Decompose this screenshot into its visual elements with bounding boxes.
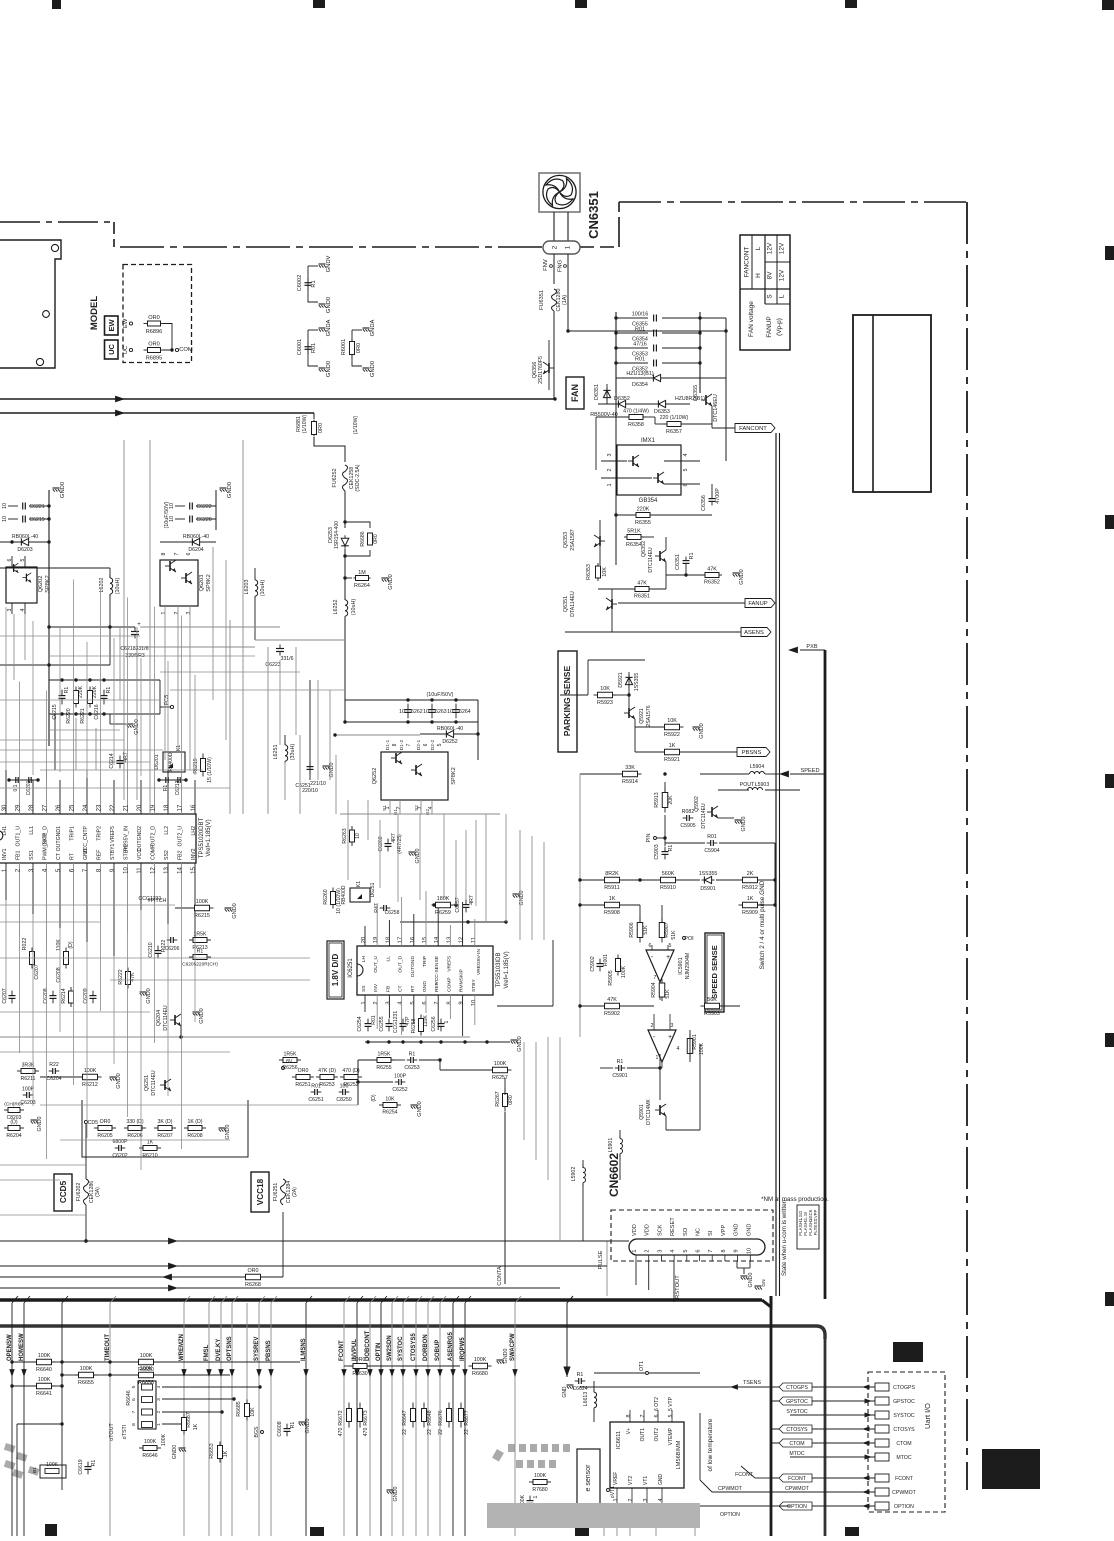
svg-text:24: 24: [83, 804, 89, 811]
svg-text:R6630: R6630: [352, 1371, 367, 1377]
capacitor C6204 R22: [49, 1070, 53, 1072]
svg-text:RT: RT: [410, 986, 416, 992]
svg-text:SYSREV: SYSREV: [254, 1337, 260, 1361]
svg-text:RT: RT: [70, 852, 76, 860]
svg-text:R6896: R6896: [146, 329, 162, 335]
svg-text:FANUP: FANUP: [766, 316, 773, 337]
svg-text:R6207: R6207: [157, 1133, 172, 1139]
uart signal CTOSYS: [771, 1428, 875, 1430]
wire signal SOBUP: [439, 1303, 441, 1536]
diode D6352: [598, 403, 648, 405]
svg-text:Q6352: Q6352: [641, 541, 647, 557]
wire signal DOBCONT: [369, 1303, 371, 1536]
svg-text:TPS5103IDB: TPS5103IDB: [496, 952, 502, 987]
wire crossing 62: [61, 1303, 63, 1490]
mounting hole: [36, 358, 43, 365]
svg-text:12: 12: [151, 867, 157, 874]
resistor R6264: [345, 577, 352, 579]
svg-text:D6203: D6203: [17, 547, 32, 553]
wire net column: [775, 433, 777, 1296]
svg-text:LH: LH: [361, 956, 367, 963]
svg-text:1K: 1K: [609, 896, 616, 902]
capacitor C6263: [431, 704, 433, 710]
svg-text:(1/10W): (1/10W): [302, 415, 308, 434]
resistor R5923 10K: [594, 694, 598, 696]
svg-text:SI: SI: [708, 1230, 714, 1236]
svg-text:R001: R001: [603, 954, 609, 966]
svg-text:1M: 1M: [358, 570, 366, 576]
svg-text:EW: EW: [123, 318, 129, 328]
svg-text:100K: 100K: [46, 1462, 58, 1468]
svg-text:PIN: PIN: [646, 833, 652, 842]
svg-text:R6255: R6255: [376, 1065, 391, 1071]
svg-text:CTOSYS5: CTOSYS5: [411, 1332, 417, 1361]
resistor R6001: [352, 329, 362, 331]
wire crossing 247: [246, 1303, 248, 1490]
svg-text:33K: 33K: [625, 765, 635, 771]
svg-text:C6264: C6264: [455, 709, 470, 715]
resistor R6896: [144, 323, 148, 325]
svg-text:L5902: L5902: [571, 1167, 577, 1182]
svg-text:S: S: [767, 294, 774, 298]
wire signal DVE.KY: [220, 1303, 222, 1536]
capacitor C6002: [308, 265, 318, 267]
arrow signal: [256, 1369, 261, 1377]
svg-text:4: 4: [670, 1249, 676, 1252]
svg-text:INV2: INV2: [191, 848, 197, 860]
node UC pin: [129, 348, 132, 351]
svg-text:4700P: 4700P: [715, 488, 721, 504]
svg-text:R6251: R6251: [295, 1082, 310, 1088]
wire bottom stub: [694, 1503, 696, 1536]
uart signal CPWMOT: [790, 1491, 875, 1493]
svg-text:OT1: OT1: [639, 1361, 645, 1371]
mosfet pair Q6202: [6, 567, 37, 603]
svg-text:ASENRG5: ASENRG5: [448, 1331, 454, 1361]
svg-text:C6202: C6202: [112, 1153, 127, 1159]
svg-text:R6646: R6646: [142, 1453, 157, 1459]
svg-text:R6212: R6212: [82, 1082, 98, 1088]
svg-text:C6263: C6263: [431, 709, 446, 715]
svg-text:47K: 47K: [707, 567, 717, 573]
svg-text:R6648: R6648: [427, 1410, 433, 1425]
resistor R5904 51K: [661, 979, 663, 983]
svg-text:(10uH): (10uH): [351, 599, 357, 616]
ground power top: [48, 490, 50, 746]
svg-text:(D): (D): [371, 1094, 377, 1101]
svg-text:GND0: GND0: [388, 574, 394, 590]
svg-text:R1: R1: [409, 1052, 416, 1058]
connector CN6602 dashed box: [611, 1210, 773, 1261]
svg-text:3: 3: [186, 611, 192, 614]
svg-text:C6256: C6256: [431, 1016, 437, 1031]
svg-text:10K: 10K: [385, 1097, 395, 1103]
svg-text:100K: 100K: [196, 899, 209, 905]
wire signal SYSTOC: [402, 1303, 404, 1536]
svg-text:C6210: C6210: [148, 942, 154, 957]
svg-text:R1: R1: [617, 1059, 624, 1065]
svg-text:470 (D): 470 (D): [342, 1068, 360, 1074]
svg-text:H: H: [755, 273, 762, 278]
resistor R6357: [664, 423, 667, 425]
svg-text:R6222: R6222: [118, 969, 124, 984]
wire speed to bus: [689, 1030, 691, 1062]
capacitor C6215: [61, 690, 63, 696]
resistor R6351: [632, 588, 635, 590]
svg-text:OR0: OR0: [148, 342, 160, 348]
svg-text:of low temperature: of low temperature: [707, 1418, 714, 1471]
svg-text:(1/10W): (1/10W): [353, 416, 359, 435]
svg-text:SYSTOC: SYSTOC: [398, 1336, 404, 1361]
svg-text:C6222: C6222: [196, 504, 211, 510]
svg-text:OR0: OR0: [247, 1268, 258, 1274]
svg-text:R6677: R6677: [464, 1410, 470, 1425]
resistor R6352: [702, 574, 705, 576]
wire bus under q6252: [340, 813, 500, 815]
fuse FU6202: [84, 1179, 89, 1205]
svg-text:CTOSYS: CTOSYS: [893, 1427, 915, 1433]
resistor R6255b: [373, 1059, 377, 1061]
wire long net: [0, 1036, 470, 1038]
wire ladder rail: [0, 664, 49, 666]
node PIN: [654, 837, 657, 840]
svg-text:R1: R1: [91, 1460, 97, 1467]
svg-text:5: 5: [437, 743, 443, 746]
svg-text:100K: 100K: [144, 1439, 157, 1445]
svg-text:VCC18: VCC18: [256, 1178, 265, 1205]
svg-text:FU6351: FU6351: [539, 290, 545, 310]
svg-text:VDD: VDD: [645, 1224, 651, 1236]
resistor R6653 1K: [219, 1442, 221, 1446]
svg-text:220K: 220K: [637, 507, 650, 513]
svg-text:12V: 12V: [779, 242, 786, 254]
svg-text:5: 5: [683, 469, 689, 472]
resistor R5901 100K: [689, 1034, 691, 1039]
svg-text:7: 7: [654, 975, 657, 981]
svg-text:10K: 10K: [602, 567, 608, 577]
svg-text:FNG: FNG: [558, 259, 564, 272]
pin 16 wire: [194, 780, 196, 814]
resistor R6673: [359, 1403, 361, 1409]
svg-text:Q6203: Q6203: [199, 575, 205, 592]
svg-text:R6214: R6214: [61, 988, 67, 1003]
svg-text:51K: 51K: [671, 930, 677, 940]
svg-text:14: 14: [178, 867, 184, 874]
svg-text:VTEMP: VTEMP: [668, 1427, 674, 1445]
wire block link: [284, 735, 286, 745]
wire rails mid: [140, 626, 280, 628]
svg-text:L6202: L6202: [99, 578, 105, 593]
svg-text:VT1: VT1: [643, 1476, 649, 1485]
thick net line: [824, 650, 827, 1299]
svg-text:R6220: R6220: [66, 708, 72, 723]
svg-text:6: 6: [696, 1249, 702, 1252]
svg-text:C6204: C6204: [46, 1076, 61, 1082]
wire rail 922: [400, 921, 506, 923]
label SPEED SENSE: [705, 933, 724, 1012]
resistor R6881: [313, 413, 315, 419]
svg-text:2: 2: [645, 1249, 651, 1252]
svg-text:R6673: R6673: [363, 1410, 369, 1425]
wire q6252 pin: [420, 800, 422, 814]
svg-text:2: 2: [628, 1499, 634, 1502]
capacitor C6351: [685, 557, 687, 561]
wire left column verticals: [123, 440, 125, 800]
ground cluster: [140, 991, 147, 993]
svg-text:L: L: [755, 246, 762, 250]
wire FANCONT: [712, 427, 718, 429]
svg-text:6: 6: [654, 1415, 660, 1418]
svg-text:GND0: GND0: [305, 1419, 311, 1434]
wire bottom stub: [603, 1503, 605, 1536]
svg-text:(10uF/50V): (10uF/50V): [427, 692, 454, 698]
svg-text:OUT2_U: OUT2_U: [178, 826, 184, 847]
inductor L5904: [750, 772, 755, 775]
svg-text:DTC114MK: DTC114MK: [646, 1098, 652, 1124]
wire fan to connector: [553, 212, 555, 241]
svg-text:FB2: FB2: [178, 850, 184, 860]
ground second channel: [215, 490, 217, 530]
wire rail 722: [345, 721, 478, 723]
svg-text:CPWMOT: CPWMOT: [718, 1486, 742, 1492]
capacitor C6202 6800P: [115, 1147, 119, 1149]
svg-text:R5910: R5910: [660, 885, 676, 891]
pin 24 wire: [86, 770, 88, 814]
transistor Q6251: [164, 1080, 166, 1090]
uart signal OPTION: [771, 1505, 875, 1507]
svg-text:1K: 1K: [193, 1423, 199, 1430]
capacitor C6257: [465, 900, 467, 905]
svg-text:29: 29: [16, 804, 22, 811]
capacitor C6219: [8, 518, 18, 520]
svg-text:2SA1576: 2SA1576: [646, 705, 652, 726]
svg-text:GNDA: GNDA: [370, 319, 376, 336]
svg-text:C6205220R(CH): C6205220R(CH): [182, 962, 218, 968]
capacitor C6253: [407, 1059, 411, 1061]
capacitor C6609: [529, 1496, 531, 1501]
resistor R6214: [70, 987, 72, 991]
svg-text:1SR154-400: 1SR154-400: [334, 521, 340, 549]
transistor Q5901: [659, 1105, 661, 1115]
svg-text:1: 1: [533, 1495, 539, 1498]
svg-text:100K: 100K: [38, 1353, 51, 1359]
wire IC1 risers to power: [5, 607, 7, 770]
svg-text:(SOC-2.5A): (SOC-2.5A): [355, 464, 361, 491]
wire FANUP: [618, 602, 745, 604]
svg-text:GPSTOC: GPSTOC: [786, 1399, 808, 1405]
wire signal OPTIN: [380, 1303, 382, 1536]
capacitor C6255: [388, 1019, 390, 1024]
node FC5: [170, 705, 173, 708]
wire gnd rail ic6251: [365, 1041, 510, 1043]
svg-text:LH2: LH2: [191, 826, 197, 836]
arrow signal: [218, 1369, 223, 1377]
svg-text:R6653: R6653: [209, 1443, 215, 1458]
resistor R5922 10K: [661, 726, 665, 728]
svg-text:CN6351: CN6351: [586, 191, 601, 239]
resistor R6641: [33, 1385, 37, 1387]
svg-text:R6206: R6206: [127, 1133, 142, 1139]
svg-text:0R0: 0R0: [373, 534, 379, 544]
resistor R6222: [127, 968, 129, 972]
svg-text:NJM2904M: NJM2904M: [685, 953, 691, 980]
svg-text:1: 1: [444, 1020, 450, 1023]
svg-text:R1: R1: [106, 687, 112, 694]
svg-text:1K: 1K: [669, 743, 676, 749]
svg-text:OPTIN: OPTIN: [376, 1343, 382, 1361]
fuse FU6351: [552, 289, 557, 311]
svg-text:6: 6: [186, 552, 192, 555]
capacitor C6209: [92, 991, 94, 996]
svg-text:CTOSYS: CTOSYS: [786, 1427, 808, 1433]
label VCC18: [251, 1172, 269, 1212]
wire power mesh extra: [0, 635, 140, 637]
wire fcont riser: [755, 1477, 771, 1479]
svg-text:C6208: C6208: [56, 967, 62, 982]
node BGS: [261, 1431, 264, 1434]
svg-text:POI: POI: [684, 936, 693, 942]
capacitor C6258: [380, 907, 384, 909]
wire signal DORBON: [427, 1303, 429, 1536]
svg-text:GPSTOC: GPSTOC: [893, 1399, 915, 1405]
resistor R6646b: [139, 1447, 143, 1449]
svg-text:R5909: R5909: [742, 910, 758, 916]
resistor box group R6205-R6208: [82, 1100, 248, 1157]
svg-text:1SS355: 1SS355: [699, 871, 718, 877]
svg-text:(33uH): (33uH): [290, 744, 296, 761]
resistor R6685 10K: [246, 1400, 248, 1404]
svg-text:8: 8: [626, 1415, 632, 1418]
svg-text:2: 2: [651, 1023, 654, 1029]
wire right gray verticals: [559, 1037, 561, 1241]
svg-text:8V: 8V: [767, 271, 774, 280]
svg-text:*NM at mass production.: *NM at mass production.: [761, 1196, 829, 1203]
wire net 1266: [0, 1265, 607, 1267]
svg-text:C6351: C6351: [675, 554, 681, 570]
svg-text:OPTSNS: OPTSNS: [227, 1336, 233, 1361]
svg-text:L5901: L5901: [608, 1138, 614, 1153]
svg-text:Vref=1.185(V): Vref=1.185(V): [504, 951, 510, 988]
pin 29 wire: [19, 780, 21, 814]
svg-text:2: 2: [174, 611, 180, 614]
fuse FU6251: [281, 1179, 286, 1205]
ground R6254: [411, 1104, 418, 1106]
svg-text:CTOM: CTOM: [896, 1441, 911, 1447]
pin 26 wire: [59, 780, 61, 814]
svg-text:R6205: R6205: [97, 1133, 112, 1139]
svg-text:D1-2: D1-2: [399, 739, 405, 750]
svg-text:CT: CT: [56, 852, 62, 860]
svg-text:51K: 51K: [665, 989, 671, 999]
arrow signal: [437, 1369, 442, 1377]
pin 8 wire: [100, 863, 102, 919]
capacitor C6001: [308, 329, 318, 331]
svg-text:R082: R082: [682, 809, 695, 815]
resistor R6208: [184, 1127, 188, 1129]
capacitor C5904 R01: [707, 842, 711, 844]
svg-text:D6252: D6252: [442, 739, 457, 745]
capacitors above IC1 right: [159, 779, 186, 781]
svg-text:HZU8R2(B1): HZU8R2(B1): [675, 396, 705, 402]
resistor R6648: [423, 1403, 425, 1409]
wire rail 700: [345, 699, 478, 701]
resistor R6K CH: [4, 1109, 8, 1111]
wire ASENS: [565, 631, 741, 633]
svg-text:R5922: R5922: [664, 732, 680, 738]
svg-text:Q5921: Q5921: [639, 708, 645, 724]
uart signal FCONT: [771, 1477, 875, 1479]
node COM: [175, 348, 178, 351]
svg-text:1.8V D/D: 1.8V D/D: [331, 954, 340, 987]
svg-text:R5906: R5906: [629, 922, 635, 937]
svg-text:e sensor: e sensor: [585, 1464, 592, 1492]
svg-text:C6219: C6219: [29, 517, 44, 523]
wire net 1288: [0, 1287, 560, 1289]
svg-text:TRIP2: TRIP2: [97, 826, 103, 841]
capacitor C6216: [103, 690, 105, 696]
svg-text:C6207: C6207: [34, 964, 40, 979]
svg-text:GND0: GND0: [393, 1487, 399, 1502]
svg-text:TPS51020DBT: TPS51020DBT: [199, 817, 205, 858]
svg-text:MODEL: MODEL: [89, 296, 100, 331]
resistor R6251: [292, 1076, 296, 1078]
svg-text:C6208: C6208: [43, 988, 49, 1003]
svg-text:100K: 100K: [474, 1357, 487, 1363]
svg-text:221/10: 221/10: [310, 781, 326, 787]
svg-text:100K: 100K: [494, 1061, 507, 1067]
svg-text:GND0: GND0: [748, 1273, 754, 1288]
transistor Q5902: [711, 807, 713, 817]
capacitor C6264: [455, 704, 457, 710]
inductor L5901: [619, 1136, 621, 1139]
pin 25 wire: [73, 780, 75, 814]
svg-text:RB060L-40: RB060L-40: [12, 534, 38, 540]
svg-text:R01: R01: [635, 357, 645, 363]
svg-text:1: 1: [632, 1249, 638, 1252]
svg-text:CN6602: CN6602: [607, 1153, 621, 1197]
capacitor C6262: [407, 704, 409, 710]
svg-text:RB400D: RB400D: [341, 885, 347, 904]
svg-text:K1: K1: [356, 881, 362, 887]
svg-text:L6203: L6203: [244, 580, 250, 595]
wire signal OPTSNS: [231, 1303, 233, 1536]
wire signal SW2SDN: [391, 1303, 393, 1536]
svg-text:D2-1: D2-1: [416, 739, 422, 750]
svg-text:D1-1: D1-1: [385, 739, 391, 750]
svg-text:220 (1/10W): 220 (1/10W): [660, 415, 689, 421]
wire q6252 pin: [431, 800, 433, 814]
ground GND0: [319, 367, 326, 369]
svg-text:470: 470: [363, 1428, 369, 1437]
svg-text:C5905: C5905: [680, 823, 695, 829]
svg-text:UC: UC: [107, 344, 116, 355]
wire bottom stub: [616, 1503, 618, 1536]
svg-text:OUT2: OUT2: [654, 1428, 660, 1442]
svg-text:13: 13: [446, 937, 452, 943]
svg-text:R6655: R6655: [78, 1380, 94, 1386]
resistor 110K D: [65, 948, 67, 952]
svg-text:VCC-SENSE: VCC-SENSE: [434, 955, 440, 984]
svg-text:TRIP1: TRIP1: [70, 826, 76, 841]
svg-text:R5903: R5903: [704, 1011, 720, 1017]
scan artifact gray bar: [487, 1503, 700, 1528]
svg-text:GND: GND: [734, 1224, 740, 1236]
svg-text:oVT1: oVT1: [610, 1486, 616, 1499]
svg-text:SYSTOC: SYSTOC: [786, 1409, 807, 1415]
svg-text:7: 7: [434, 1001, 440, 1004]
svg-text:1: 1: [565, 245, 572, 249]
arrow signal: [425, 1369, 430, 1377]
